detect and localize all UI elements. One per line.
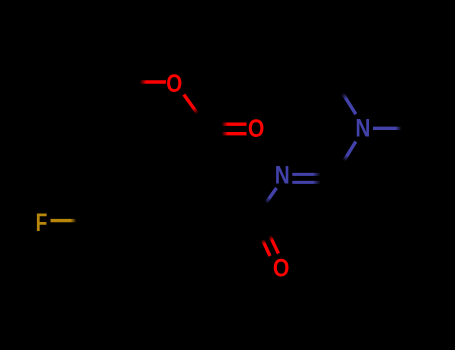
bond N-CH3 (right methyl) [373, 127, 402, 130]
double bond N=C amidine (two lines) [292, 173, 320, 176]
bond N-CH3 (upper left methyl) [343, 93, 356, 114]
double bond C=O ester (two lines) [222, 123, 247, 126]
svg-text:N: N [275, 161, 290, 189]
bond O-C(ester carbonyl) [184, 95, 198, 114]
bond CH3-O (methyl half) [140, 80, 167, 83]
svg-text:O: O [273, 255, 290, 283]
svg-text:O: O [248, 115, 265, 143]
bond F-C(ring) [51, 219, 77, 222]
svg-text:N: N [355, 114, 370, 142]
bond C(amidine)-N(CH3)2 [344, 142, 356, 161]
svg-text:O: O [166, 70, 182, 98]
double bond C=O amide (two lines) [263, 240, 270, 256]
bond N-C(amide carbonyl) [266, 188, 277, 203]
svg-text:F: F [36, 209, 48, 237]
